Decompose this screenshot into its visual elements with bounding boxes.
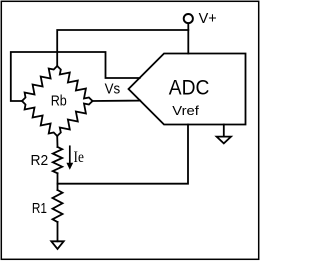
svg-text:Vs: Vs (105, 81, 121, 98)
svg-text:ADC: ADC (169, 76, 210, 100)
svg-text:Rb: Rb (51, 94, 67, 110)
wire bridge left vertex up and over to ADC Vs input (11, 52, 140, 101)
svg-text:V+: V+ (199, 11, 217, 27)
wire bridge top vertex to V+ rail (57, 30, 188, 66)
svg-text:Vref: Vref (172, 104, 199, 118)
resistor R2 (53, 147, 62, 173)
wire ADC ground stem (223, 125, 225, 137)
wire R2 bottom to junction (57, 173, 59, 190)
svg-text:R1: R1 (32, 201, 47, 217)
bridge resistor Rb top-right arm (57, 66, 92, 101)
wire Vref pin down and left to R2/R1 junction (58, 125, 189, 184)
current arrow Ie (67, 146, 72, 168)
bridge resistor Rb top-left arm (22, 66, 57, 101)
wire V+ stem to ADC top (187, 23, 189, 53)
bridge resistor Rb bottom-left arm (22, 101, 57, 136)
ground below ADC (217, 137, 231, 144)
ground below R1 (51, 241, 63, 249)
wire R1 bottom to ground (57, 222, 59, 241)
ADC block outline (129, 54, 246, 125)
svg-text:R2: R2 (31, 153, 49, 169)
svg-text:Ie: Ie (74, 149, 85, 166)
wire bridge bottom vertex to resistor R2 (56, 136, 58, 147)
resistor R1 (53, 190, 63, 222)
bridge resistor Rb bottom-right arm (57, 101, 92, 136)
wire bridge right vertex to ADC lower input (93, 100, 141, 102)
terminal V+ (184, 14, 193, 23)
